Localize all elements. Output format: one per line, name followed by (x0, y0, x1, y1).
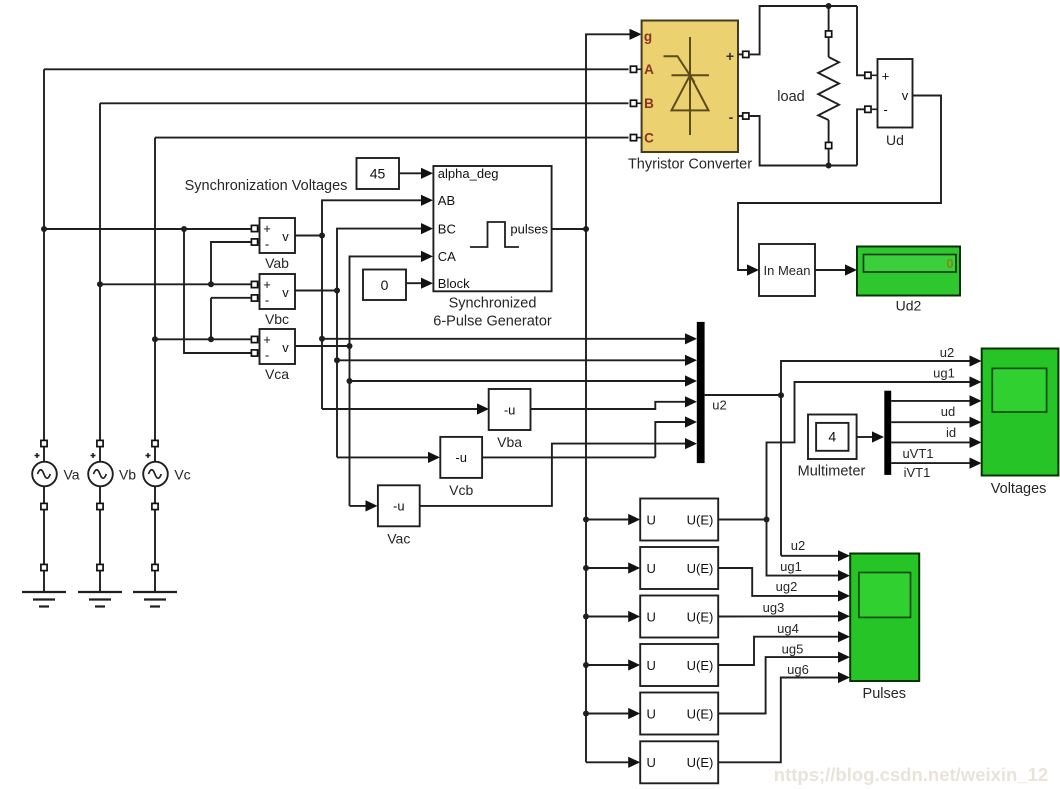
svg-text:-u: -u (504, 402, 516, 417)
svg-text:Vcb: Vcb (449, 482, 473, 498)
svg-text:ug6: ug6 (787, 662, 809, 677)
svg-text:g: g (644, 29, 652, 44)
svg-text:-u: -u (393, 499, 405, 514)
svg-text:-: - (265, 293, 269, 308)
svg-text:+: + (263, 277, 271, 292)
svg-text:U(E): U(E) (687, 561, 714, 576)
svg-text:-: - (265, 237, 269, 252)
svg-text:45: 45 (370, 166, 386, 182)
svg-text:C: C (644, 131, 654, 146)
svg-text:alpha_deg: alpha_deg (438, 166, 499, 181)
svg-text:In Mean: In Mean (764, 263, 811, 278)
svg-text:-: - (883, 102, 887, 117)
svg-text:Block: Block (438, 276, 470, 291)
svg-text:+: + (882, 69, 890, 84)
svg-text:Voltages: Voltages (991, 481, 1047, 497)
svg-text:Va: Va (63, 467, 79, 483)
svg-text:u2: u2 (712, 398, 726, 413)
svg-text:+: + (726, 48, 734, 64)
svg-text:Vca: Vca (265, 366, 289, 382)
svg-text:U(E): U(E) (687, 706, 714, 721)
svg-text:Synchronization Voltages: Synchronization Voltages (185, 178, 348, 194)
svg-text:pulses: pulses (510, 222, 548, 237)
svg-text:U: U (647, 658, 656, 673)
svg-text:ug2: ug2 (776, 579, 798, 594)
svg-text:Pulses: Pulses (863, 686, 907, 702)
svg-text:U: U (647, 755, 656, 770)
svg-text:-u: -u (455, 450, 467, 465)
svg-text:A: A (644, 62, 654, 77)
svg-text:load: load (777, 89, 804, 105)
svg-text:+: + (263, 221, 271, 236)
svg-text:v: v (282, 340, 289, 355)
svg-text:ug5: ug5 (782, 642, 804, 657)
svg-text:Ud2: Ud2 (896, 298, 922, 314)
svg-text:ug3: ug3 (763, 600, 785, 615)
svg-text:BC: BC (438, 221, 456, 236)
svg-text:uVT1: uVT1 (902, 446, 933, 461)
svg-text:-: - (265, 348, 269, 363)
svg-text:-: - (729, 109, 734, 125)
svg-text:nttps;//blog.csdn.net/weixin_1: nttps;//blog.csdn.net/weixin_12 (774, 764, 1048, 785)
svg-text:+: + (263, 332, 271, 347)
svg-text:U: U (647, 706, 656, 721)
svg-text:v: v (282, 285, 289, 300)
svg-text:v: v (902, 88, 909, 103)
svg-text:U: U (647, 512, 656, 527)
svg-text:U: U (647, 609, 656, 624)
svg-text:ud: ud (941, 404, 955, 419)
svg-text:ug1: ug1 (780, 559, 802, 574)
svg-text:id: id (946, 425, 956, 440)
svg-text:Vab: Vab (265, 255, 289, 271)
svg-text:Vbc: Vbc (265, 311, 289, 327)
svg-text:Vac: Vac (387, 530, 410, 546)
svg-text:u2: u2 (940, 345, 954, 360)
svg-text:Multimeter: Multimeter (798, 464, 866, 480)
svg-text:AB: AB (438, 193, 455, 208)
svg-text:U(E): U(E) (687, 755, 714, 770)
svg-text:0: 0 (381, 277, 389, 293)
svg-text:Vc: Vc (174, 467, 190, 483)
svg-text:Vba: Vba (497, 434, 522, 450)
svg-text:ug4: ug4 (777, 621, 799, 636)
svg-text:6-Pulse Generator: 6-Pulse Generator (433, 314, 552, 330)
svg-text:0: 0 (946, 256, 953, 271)
svg-text:Thyristor Converter: Thyristor Converter (628, 157, 752, 173)
svg-text:U(E): U(E) (687, 658, 714, 673)
svg-text:u2: u2 (791, 538, 805, 553)
svg-text:v: v (282, 229, 289, 244)
svg-text:U(E): U(E) (687, 512, 714, 527)
svg-text:U(E): U(E) (687, 609, 714, 624)
svg-text:Ud: Ud (886, 132, 904, 148)
svg-text:4: 4 (828, 429, 836, 445)
svg-text:U: U (647, 561, 656, 576)
svg-text:Vb: Vb (119, 467, 136, 483)
svg-text:iVT1: iVT1 (904, 465, 931, 480)
svg-text:B: B (644, 96, 654, 111)
svg-text:Synchronized: Synchronized (449, 296, 537, 312)
svg-text:ug1: ug1 (933, 366, 955, 381)
svg-text:CA: CA (438, 249, 456, 264)
